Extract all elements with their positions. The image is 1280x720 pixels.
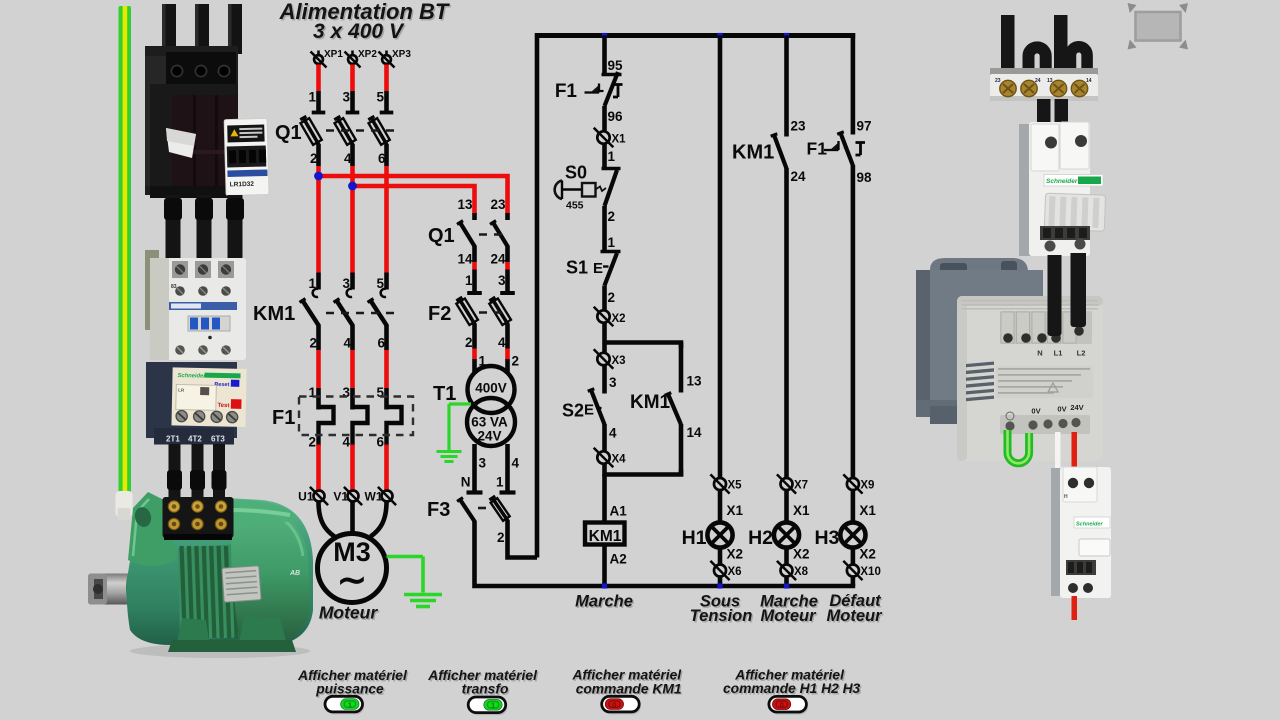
svg-text:A1: A1 [610,504,628,519]
svg-text:13: 13 [1047,78,1053,84]
svg-text:Schneider: Schneider [1076,522,1103,528]
svg-text:V1: V1 [333,490,348,504]
svg-text:commande KM1: commande KM1 [576,681,682,696]
svg-text:F1: F1 [272,407,295,429]
svg-text:0: 0 [780,700,784,709]
svg-text:F3: F3 [427,499,450,521]
svg-text:E: E [593,260,603,277]
svg-text:XP1: XP1 [324,49,343,60]
svg-text:2: 2 [310,151,318,166]
svg-text:LR1D32: LR1D32 [230,181,255,189]
svg-text:Moteur: Moteur [319,603,379,623]
svg-text:F1: F1 [555,81,578,102]
svg-text:6T3: 6T3 [211,435,225,444]
svg-text:13: 13 [457,197,473,212]
svg-text:X2: X2 [793,547,810,562]
svg-text:S1: S1 [566,258,588,278]
svg-text:X8: X8 [794,566,809,578]
svg-text:83: 83 [171,284,177,290]
svg-text:X2: X2 [859,547,876,562]
svg-text:3: 3 [479,456,487,471]
svg-text:X1: X1 [793,503,810,518]
svg-text:S2: S2 [562,401,584,421]
svg-text:Schneider: Schneider [177,373,206,380]
svg-text:commande H1 H2 H3: commande H1 H2 H3 [723,681,861,696]
svg-text:S0: S0 [565,163,587,183]
svg-text:X7: X7 [794,480,808,492]
svg-text:3: 3 [498,273,506,288]
svg-text:1: 1 [308,385,316,400]
svg-text:14: 14 [1086,78,1092,84]
svg-text:24: 24 [490,252,506,267]
svg-text:2: 2 [308,435,316,450]
svg-text:455: 455 [566,200,584,212]
svg-text:X5: X5 [728,480,743,492]
svg-text:F2: F2 [428,303,451,325]
svg-text:Test: Test [217,403,229,409]
svg-text:1: 1 [308,90,316,105]
svg-text:96: 96 [608,109,624,124]
svg-text:X1: X1 [727,503,744,518]
svg-text:2: 2 [309,336,317,351]
svg-text:24V: 24V [477,429,501,444]
svg-text:T1: T1 [433,383,456,405]
svg-text:400V: 400V [475,381,507,396]
svg-text:∼: ∼ [337,559,367,600]
svg-text:4: 4 [342,435,350,450]
svg-text:X1: X1 [859,503,876,518]
svg-text:Q1: Q1 [275,122,302,144]
svg-text:23: 23 [490,197,506,212]
svg-text:W1: W1 [365,490,383,504]
svg-text:KM1: KM1 [630,392,671,413]
svg-text:24V: 24V [1070,403,1083,412]
svg-text:6: 6 [376,435,384,450]
svg-text:5: 5 [376,385,384,400]
svg-text:H1: H1 [682,527,707,549]
svg-text:14: 14 [687,425,703,440]
svg-text:U1: U1 [298,490,314,504]
svg-text:3 x 400 V: 3 x 400 V [313,20,405,43]
svg-text:1: 1 [348,700,352,709]
svg-text:N: N [461,475,471,490]
svg-text:6: 6 [377,336,385,351]
svg-text:5: 5 [376,90,384,105]
svg-text:23: 23 [995,78,1001,84]
svg-text:KM1: KM1 [732,142,774,164]
svg-text:3: 3 [609,375,617,390]
svg-text:14: 14 [457,252,473,267]
svg-text:23: 23 [791,119,807,134]
svg-text:4: 4 [609,426,617,441]
svg-text:98: 98 [857,170,873,185]
svg-text:1: 1 [608,235,616,250]
svg-text:0: 0 [612,700,616,709]
svg-text:X2: X2 [727,547,744,562]
svg-text:4T2: 4T2 [188,435,202,444]
svg-text:24: 24 [1035,78,1041,84]
svg-text:1: 1 [465,273,473,288]
svg-text:Q1: Q1 [428,225,455,247]
svg-text:1: 1 [496,475,504,490]
svg-text:Afficher matériel: Afficher matériel [571,668,682,683]
svg-text:L1: L1 [1054,349,1063,358]
svg-text:H2: H2 [748,527,773,549]
svg-text:97: 97 [857,119,872,134]
svg-text:4: 4 [343,336,351,351]
svg-text:24: 24 [791,169,807,184]
svg-text:F1: F1 [807,139,828,159]
svg-text:63 VA: 63 VA [471,415,508,430]
svg-text:13: 13 [687,374,703,389]
svg-text:4: 4 [498,335,506,350]
svg-text:Schneider: Schneider [1046,178,1078,185]
svg-text:X1: X1 [612,134,627,146]
svg-text:N: N [1037,349,1042,358]
svg-text:AB: AB [289,570,300,577]
svg-text:2: 2 [497,530,505,545]
svg-text:3: 3 [342,90,350,105]
svg-text:2: 2 [465,335,473,350]
svg-text:Marche: Marche [575,593,633,611]
svg-text:6: 6 [378,151,386,166]
svg-text:transfo: transfo [462,682,509,697]
svg-text:H: H [1064,494,1068,500]
svg-text:1: 1 [491,701,495,710]
svg-text:X6: X6 [728,566,742,578]
svg-text:A2: A2 [610,552,627,567]
svg-text:3: 3 [342,385,350,400]
svg-text:Moteur: Moteur [761,607,818,625]
svg-text:0V: 0V [1031,407,1040,416]
svg-text:H3: H3 [814,527,839,549]
svg-text:0V: 0V [1057,405,1066,414]
svg-text:X9: X9 [860,480,874,492]
svg-text:1: 1 [608,149,616,164]
svg-text:2T1: 2T1 [166,435,180,444]
svg-text:4: 4 [344,151,352,166]
svg-text:LR: LR [178,388,185,393]
svg-text:X3: X3 [612,355,626,367]
svg-text:puissance: puissance [315,682,384,697]
svg-text:2: 2 [608,209,616,224]
svg-text:2: 2 [512,354,520,369]
svg-text:4: 4 [512,456,520,471]
svg-text:2: 2 [608,290,616,305]
svg-text:X10: X10 [860,566,880,578]
svg-text:KM1: KM1 [589,528,622,545]
svg-text:KM1: KM1 [253,303,295,325]
svg-text:XP2: XP2 [358,49,377,60]
svg-text:X2: X2 [612,313,626,325]
svg-text:XP3: XP3 [392,49,411,60]
svg-text:E: E [584,402,594,419]
svg-text:X4: X4 [612,454,627,466]
svg-text:Tension: Tension [690,607,753,625]
svg-text:Moteur: Moteur [827,607,884,625]
svg-text:95: 95 [608,58,624,73]
svg-text:L2: L2 [1077,349,1086,358]
